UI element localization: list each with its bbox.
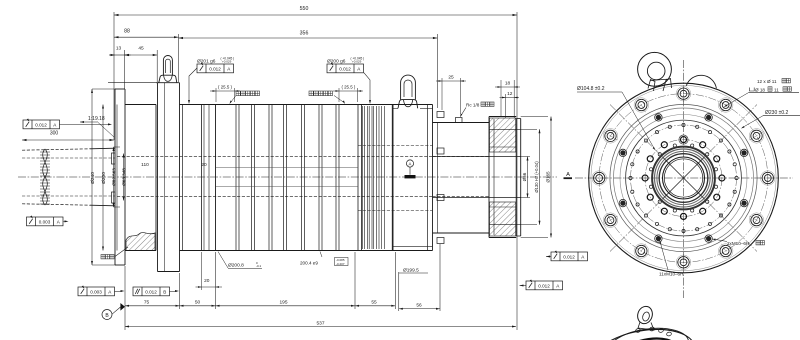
front housing tower <box>157 83 159 272</box>
svg-text:-0.207: -0.207 <box>336 262 345 266</box>
dia 165 dimension <box>521 116 548 118</box>
cooling passage hatch <box>126 233 155 251</box>
coolant outlet label <box>309 91 313 96</box>
shaft inner dashed lines <box>22 157 115 159</box>
joint screw tabs <box>437 112 444 118</box>
fcf runout 0.003 A bottom <box>78 287 115 296</box>
plug holes 8x dark <box>742 150 747 155</box>
end view centerline vertical <box>683 60 685 298</box>
taper label 1:19.18 <box>80 121 84 123</box>
svg-text:Ø201 g6: Ø201 g6 <box>197 59 216 65</box>
rear block hidden lines <box>358 145 433 147</box>
svg-text:195: 195 <box>279 300 287 306</box>
flange top edge line <box>108 82 156 84</box>
svg-text:0.012: 0.012 <box>339 67 351 72</box>
dim 88 <box>114 36 179 38</box>
svg-text:0.012: 0.012 <box>35 123 47 128</box>
svg-text:45: 45 <box>138 46 144 52</box>
bolt circle dia230 <box>599 94 768 263</box>
svg-text:A: A <box>566 172 570 178</box>
svg-text:75: 75 <box>144 300 150 306</box>
shaft taper outline <box>90 147 115 150</box>
svg-text:Ø130 H7 (+0.04): Ø130 H7 (+0.04) <box>534 161 539 193</box>
dim 550 <box>113 12 115 140</box>
dim 25 rear top <box>441 78 443 110</box>
svg-text:11xM10–6H: 11xM10–6H <box>659 272 683 277</box>
dim 12 rear top <box>505 94 507 118</box>
svg-text:-0.1: -0.1 <box>256 264 262 268</box>
eyebolt end view <box>638 52 672 86</box>
svg-text:( 25.5 ): ( 25.5 ) <box>218 85 232 90</box>
svg-text:B: B <box>163 290 166 295</box>
front flange plate A <box>114 89 116 265</box>
front flange plate B <box>155 105 157 251</box>
svg-text:( 25.5 ): ( 25.5 ) <box>341 85 355 90</box>
dim 537 <box>125 326 516 328</box>
svg-text:0.003: 0.003 <box>39 220 51 225</box>
dim 25.5 first <box>215 88 217 102</box>
cooling passage label <box>101 255 105 259</box>
svg-text:0.012: 0.012 <box>145 290 157 295</box>
svg-text:A: A <box>409 162 412 167</box>
Rc 1/8 screw plug <box>456 118 463 123</box>
bottom dims 75 50 195 55 <box>124 266 126 330</box>
svg-text:Ø240: Ø240 <box>90 172 96 184</box>
svg-text:20: 20 <box>201 162 207 168</box>
bore cross lines <box>663 157 705 199</box>
svg-text:+0.029: +0.029 <box>352 60 362 64</box>
rear housing block <box>392 105 394 251</box>
dia 200 dimension <box>102 105 104 251</box>
end view centerline horizontal <box>575 177 793 179</box>
flange inner circles <box>610 104 757 251</box>
svg-text:Ø200: Ø200 <box>101 172 107 184</box>
svg-text:Ø230 ±0.2: Ø230 ±0.2 <box>765 110 789 116</box>
fcf parallel 0.012 B bottom <box>133 287 170 296</box>
svg-text:Ø 18: Ø 18 <box>755 87 765 92</box>
dim 25.5 second <box>338 88 340 102</box>
eyebolt rear <box>401 75 416 99</box>
isometric partial view <box>586 322 699 340</box>
small holes ring r53 <box>631 125 737 231</box>
svg-text:300: 300 <box>50 131 59 137</box>
dim 13 <box>124 50 126 89</box>
datum A balloon <box>406 160 413 167</box>
svg-text:88: 88 <box>124 29 130 35</box>
coolant inlet label <box>236 91 240 96</box>
isometric eyebolt <box>635 304 654 325</box>
svg-text:25: 25 <box>448 75 454 81</box>
dim 56 bottom <box>398 272 400 311</box>
end cap hatch upper <box>490 118 516 152</box>
svg-text:200.4 e9: 200.4 e9 <box>300 261 318 266</box>
svg-text:Ø199.5: Ø199.5 <box>403 268 419 274</box>
stator ribbed body <box>215 105 217 251</box>
dim 356 <box>436 34 438 108</box>
svg-text:Ø165: Ø165 <box>546 171 551 183</box>
svg-text:56: 56 <box>416 303 422 309</box>
dia 240 dimension <box>91 89 93 265</box>
svg-text:Rc 1/8: Rc 1/8 <box>466 103 480 108</box>
fcf runout 0.003 A left <box>27 217 64 226</box>
svg-text:18: 18 <box>505 81 511 87</box>
svg-text:0.012: 0.012 <box>563 255 575 260</box>
end view diagonal centerlines <box>610 105 757 252</box>
svg-text:1:19.18: 1:19.18 <box>88 116 105 122</box>
small holes ring r33.6 <box>714 168 717 171</box>
end cap hatch lower <box>490 202 516 236</box>
svg-text:Ø200 g6: Ø200 g6 <box>327 59 346 65</box>
spacer section <box>391 105 393 250</box>
svg-text:Ø56: Ø56 <box>522 172 527 181</box>
svg-text:20: 20 <box>204 278 210 284</box>
clamp plate pack <box>362 104 394 106</box>
svg-text:11: 11 <box>774 87 779 92</box>
svg-text:2xM10–6H: 2xM10–6H <box>727 241 749 246</box>
svg-text:+0.029: +0.029 <box>222 60 232 64</box>
lifting boss arc <box>686 75 716 88</box>
svg-text:550: 550 <box>300 6 309 12</box>
svg-text:12 x Ø 11: 12 x Ø 11 <box>757 79 777 84</box>
side view centerline <box>18 176 557 178</box>
svg-text:12: 12 <box>507 91 513 97</box>
svg-text:Ø82.563: Ø82.563 <box>112 168 117 186</box>
svg-text:0.003: 0.003 <box>90 290 102 295</box>
svg-text:0.012: 0.012 <box>538 284 550 289</box>
shaft break symbol <box>43 149 48 205</box>
body hidden lines <box>117 155 432 157</box>
svg-text:110: 110 <box>141 162 149 168</box>
svg-text:Ø104.8 ±0.2: Ø104.8 ±0.2 <box>577 86 605 92</box>
dim 45 <box>156 50 158 82</box>
rear end cap <box>488 117 490 238</box>
dia 130 H7 dimension <box>521 128 537 130</box>
svg-text:50: 50 <box>195 300 201 306</box>
end cap bore lines <box>489 128 521 130</box>
flange face key blocks <box>112 153 116 164</box>
dia 82.563 dimension <box>113 147 115 207</box>
front bearing section <box>180 104 216 106</box>
outer flange circle <box>589 83 779 273</box>
svg-text:55: 55 <box>371 300 377 306</box>
dim 300 <box>22 139 114 141</box>
dim 20 bottom <box>201 252 203 290</box>
svg-text:Ø63.348: Ø63.348 <box>122 168 127 186</box>
dia 56 dimension <box>521 156 530 158</box>
eyebolt front <box>163 56 172 76</box>
bolt holes 12x dia11 <box>762 172 773 183</box>
dia 63.348 dimension <box>123 154 125 201</box>
datum B symbol <box>102 310 112 320</box>
dim 18 rear top <box>500 80 502 116</box>
fcf runout 0.012 A upper-left <box>23 120 60 129</box>
fcf runout 0.012 A right-low <box>526 281 563 290</box>
svg-text:0.012: 0.012 <box>209 67 221 72</box>
rear section <box>433 122 490 124</box>
svg-text:537: 537 <box>316 321 324 327</box>
center bore rings <box>652 147 715 210</box>
M10 holes ring dia104.8 <box>645 140 722 217</box>
svg-text:Ø200.8: Ø200.8 <box>228 263 244 269</box>
fcf runout 0.012 A right-mid <box>551 252 588 261</box>
svg-text:13: 13 <box>116 46 122 52</box>
svg-text:356: 356 <box>300 31 309 37</box>
